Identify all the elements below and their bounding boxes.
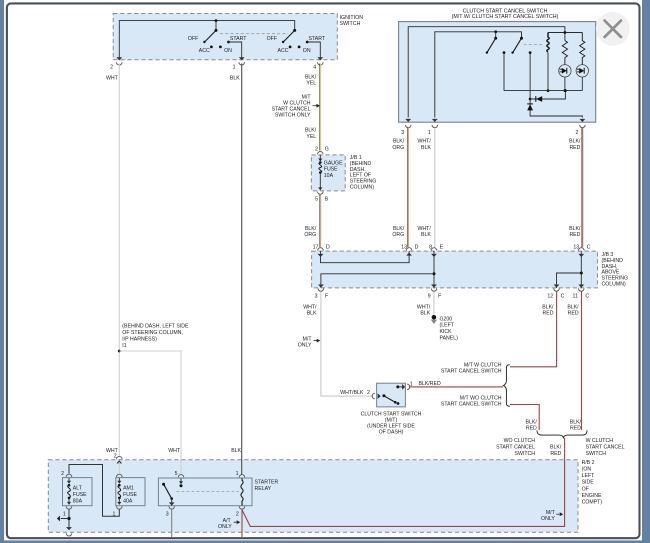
close button <box>596 12 630 46</box>
svg-text:F: F <box>325 294 328 300</box>
svg-text:M/T: M/T <box>546 510 556 516</box>
svg-text:FUSE: FUSE <box>73 492 87 498</box>
svg-text:80A: 80A <box>73 499 83 505</box>
svg-text:START CANCEL SWITCH: START CANCEL SWITCH <box>441 402 502 408</box>
svg-text:SWITCH ONLY: SWITCH ONLY <box>275 113 311 119</box>
diode D2 <box>530 99 582 118</box>
svg-text:RED: RED <box>568 311 579 317</box>
svg-text:WHT/BLK: WHT/BLK <box>340 390 364 396</box>
merged BLK/RED wire down into R/B2 <box>242 438 565 527</box>
terminal 2 of cancel switch <box>580 119 586 122</box>
terminal 3 of cancel switch <box>405 119 411 122</box>
svg-text:2: 2 <box>315 147 318 153</box>
svg-text:LEFT: LEFT <box>582 473 596 479</box>
AM1 fuse box <box>116 478 145 506</box>
svg-text:OFF: OFF <box>267 36 277 42</box>
svg-text:COMPT): COMPT) <box>582 500 603 506</box>
wire BLK/RED cancel sw 2 to J/B3 <box>581 128 583 248</box>
mechanical link dashed line <box>220 33 288 35</box>
gauge fuse 10A <box>319 155 321 161</box>
svg-text:START CANCEL SWITCH: START CANCEL SWITCH <box>441 369 502 375</box>
terminal 8 E of J/B3 <box>431 248 437 251</box>
svg-text:ONLY: ONLY <box>541 516 555 522</box>
svg-text:RED: RED <box>543 311 554 317</box>
svg-text:BLK/: BLK/ <box>393 139 405 145</box>
svg-text:PANEL): PANEL) <box>440 336 459 342</box>
AM1 fuse terminal 2 <box>117 474 123 477</box>
svg-text:1: 1 <box>236 471 239 477</box>
svg-text:40A: 40A <box>123 499 133 505</box>
ground G200 <box>432 315 437 320</box>
svg-text:BLK/: BLK/ <box>569 226 581 232</box>
svg-text:WHT: WHT <box>168 448 181 454</box>
svg-text:BLK: BLK <box>421 232 431 238</box>
wire WHT/BLK cancel sw 1 to J/B3 <box>434 128 436 248</box>
svg-text:WHT: WHT <box>106 76 119 82</box>
svg-text:2: 2 <box>61 471 64 477</box>
svg-text:13: 13 <box>401 245 407 251</box>
J/B 1 box <box>311 155 345 191</box>
relay terminal 5 <box>178 475 184 478</box>
svg-text:2: 2 <box>110 64 113 70</box>
svg-text:WHT: WHT <box>106 448 119 454</box>
mechanical link dashed <box>524 44 545 46</box>
svg-text:C: C <box>561 294 565 300</box>
svg-text:RED: RED <box>569 232 580 238</box>
terminal 12 C of J/B3 <box>554 288 560 291</box>
J/B 3 box <box>312 251 598 288</box>
svg-text:BLK: BLK <box>307 311 317 317</box>
wire from relay 3 down <box>171 509 173 537</box>
wire WHT/BLK from J/B3 3F to clutch start switch <box>321 292 373 397</box>
relay mechanical link <box>177 491 240 493</box>
svg-text:BLK/: BLK/ <box>526 419 538 425</box>
svg-text:ONLY: ONLY <box>218 524 232 530</box>
svg-text:(M/T W/ CLUTCH START CANCEL SW: (M/T W/ CLUTCH START CANCEL SWITCH) <box>452 14 559 20</box>
svg-text:W CLUTCH: W CLUTCH <box>586 438 614 444</box>
relay switch <box>162 483 165 486</box>
wire BLK/ORG from J/B1 to J/B3 <box>319 195 321 248</box>
svg-text:RED: RED <box>550 451 561 457</box>
svg-text:G: G <box>325 147 329 153</box>
svg-text:ACC: ACC <box>278 48 289 54</box>
wire BLK/RED upper branch to J/B3 12 <box>510 292 557 367</box>
svg-text:(BEHIND DASH, LEFT SIDE: (BEHIND DASH, LEFT SIDE <box>122 324 189 330</box>
svg-text:BLK/: BLK/ <box>567 304 579 310</box>
terminal 1 of cancel switch <box>432 119 438 122</box>
wire BLK/YEL from ignition terminal 4 <box>319 63 321 150</box>
svg-text:1: 1 <box>233 64 236 70</box>
wire BLK/RED from relay 2 down <box>241 509 243 537</box>
svg-text:SIDE: SIDE <box>582 480 595 486</box>
svg-text:BLK/: BLK/ <box>569 139 581 145</box>
svg-text:START: START <box>309 36 326 42</box>
svg-text:BLK: BLK <box>420 311 430 317</box>
svg-text:(ON: (ON <box>582 467 592 473</box>
svg-text:3: 3 <box>401 130 404 136</box>
clutch start cancel switch box <box>399 22 596 123</box>
svg-text:11: 11 <box>573 294 578 300</box>
terminal 5 B of J/B 1 <box>318 192 324 195</box>
wire AM1-1 to ALT-2 <box>69 465 119 517</box>
wire from ALT-1 down with branch arrow <box>68 509 70 528</box>
wire WHT branch to starter relay terminal 5 <box>119 351 181 475</box>
wire WHT/BLK from J/B3 9F to ground <box>433 292 435 315</box>
relay terminal 1 <box>239 475 245 478</box>
svg-text:BLK/: BLK/ <box>305 74 317 80</box>
svg-text:BLK: BLK <box>231 448 241 454</box>
svg-text:(LEFT: (LEFT <box>440 323 455 329</box>
terminal 2 G of J/B 1 <box>318 152 324 155</box>
LED U1 <box>559 65 571 77</box>
svg-text:AM1: AM1 <box>123 486 134 492</box>
wire WHT from ignition terminal 2 <box>118 63 120 456</box>
terminal 2 at R/B2 top edge <box>117 456 123 459</box>
AM1 fuse terminal 1 <box>117 506 123 509</box>
split brace <box>503 365 509 407</box>
cancel switch pole 2 <box>520 37 523 40</box>
svg-text:OFF: OFF <box>188 36 198 42</box>
svg-text:START: START <box>230 36 247 42</box>
svg-text:ORG: ORG <box>392 145 404 151</box>
relay coil <box>241 478 243 505</box>
resistor R2 <box>580 33 585 65</box>
wire BLK from ignition terminal 1 <box>241 63 243 474</box>
svg-text:F: F <box>438 294 441 300</box>
svg-text:ORG: ORG <box>392 232 404 238</box>
svg-text:COLUMN): COLUMN) <box>350 185 374 191</box>
svg-text:D: D <box>415 245 419 251</box>
svg-text:WHT/: WHT/ <box>303 304 317 310</box>
svg-text:2: 2 <box>367 390 370 396</box>
svg-text:WHT/: WHT/ <box>417 304 431 310</box>
svg-text:FUSE: FUSE <box>123 492 137 498</box>
node: bus junction <box>215 19 218 22</box>
svg-text:G200: G200 <box>440 316 453 322</box>
svg-text:FUSE: FUSE <box>324 167 338 173</box>
svg-text:ENGINE: ENGINE <box>582 493 602 499</box>
svg-text:BLK/: BLK/ <box>305 128 317 134</box>
svg-text:D: D <box>326 245 330 251</box>
svg-text:RELAY: RELAY <box>255 486 272 492</box>
svg-text:10A: 10A <box>324 173 334 179</box>
terminal 9 F of J/B3 <box>431 288 437 291</box>
svg-text:RED: RED <box>526 426 537 432</box>
terminal 3 F of J/B3 <box>318 288 324 291</box>
svg-text:OF: OF <box>582 486 589 492</box>
svg-text:SWITCH: SWITCH <box>586 451 607 457</box>
svg-text:ON: ON <box>224 48 232 54</box>
wire BLK/RED from clutch start switch <box>409 386 503 388</box>
LED U2 <box>576 65 588 77</box>
svg-text:BLK: BLK <box>230 76 240 82</box>
svg-text:3: 3 <box>315 294 318 300</box>
svg-text:BLK/: BLK/ <box>570 419 582 425</box>
starter relay box <box>158 478 252 506</box>
ALT fuse terminal 2 <box>66 474 72 477</box>
ignition switch box <box>113 14 337 60</box>
AM1 fuse 40A element <box>118 478 120 483</box>
svg-text:12: 12 <box>547 294 553 300</box>
svg-text:RED: RED <box>570 426 581 432</box>
junction on WHT wire <box>118 350 121 353</box>
wire: stub to switch 1 pivot <box>215 21 217 31</box>
svg-text:I/P HARNESS): I/P HARNESS) <box>122 336 157 342</box>
wire: J/B3 internal 8 to 9 and 3 <box>433 251 435 288</box>
wire BLK/ORG cancel sw 3 to J/B3 <box>407 128 409 248</box>
terminal 13 C of J/B3 <box>579 248 585 251</box>
wire: START contact to terminal 1 <box>229 42 242 60</box>
svg-text:WO CLUTCH: WO CLUTCH <box>504 438 536 444</box>
svg-text:YEL: YEL <box>306 81 316 87</box>
svg-text:OF STEERING COLUMN,: OF STEERING COLUMN, <box>122 330 183 336</box>
ALT fuse 80A element <box>68 478 70 483</box>
wire WHT from edge to AM1 fuse <box>118 462 120 474</box>
ALT fuse box <box>63 478 93 506</box>
R/B 2 box <box>48 460 578 532</box>
wire BLK/RED lower branch <box>510 405 539 431</box>
svg-text:RED: RED <box>569 145 580 151</box>
svg-text:BLK/: BLK/ <box>393 226 405 232</box>
svg-text:SWITCH: SWITCH <box>340 21 361 27</box>
svg-text:2: 2 <box>576 130 579 136</box>
svg-text:I1: I1 <box>122 343 126 349</box>
svg-text:1: 1 <box>428 130 431 136</box>
svg-text:ONLY: ONLY <box>298 343 312 349</box>
merge brace <box>537 430 587 437</box>
ignition switch pole 1 <box>215 29 218 32</box>
svg-text:R/B 2: R/B 2 <box>582 460 595 466</box>
relay terminal 2 <box>239 506 245 509</box>
svg-text:ORG: ORG <box>304 232 316 238</box>
svg-text:COLUMN): COLUMN) <box>602 282 626 288</box>
svg-text:3: 3 <box>166 512 169 518</box>
svg-text:2: 2 <box>114 454 117 460</box>
svg-text:9: 9 <box>428 294 431 300</box>
wire: ignition internal bus <box>119 21 294 60</box>
wire: coil-resistor top bus <box>548 32 582 34</box>
ignition switch pole 2 <box>293 29 296 32</box>
ALT fuse terminal 1 <box>66 506 72 509</box>
relay coil (cancel switch) <box>547 33 549 53</box>
svg-text:1: 1 <box>63 511 66 517</box>
svg-text:A/T: A/T <box>223 518 232 524</box>
svg-text:C: C <box>585 294 589 300</box>
terminal 2 of clutch start switch <box>372 393 375 399</box>
terminal 11 C of J/B3 <box>579 288 585 291</box>
svg-text:ON: ON <box>303 48 311 54</box>
svg-text:BLK/RED: BLK/RED <box>419 381 441 387</box>
resistor R1 <box>562 41 567 65</box>
svg-text:BLK/: BLK/ <box>305 226 317 232</box>
wire: J/B3 internal 17 to 13 <box>321 251 410 263</box>
terminal 17 D of J/B3 <box>318 248 324 251</box>
svg-text:GAUGE: GAUGE <box>324 160 343 166</box>
terminal 1 of ignition switch <box>239 57 245 60</box>
svg-text:ACC: ACC <box>199 48 210 54</box>
svg-text:SWITCH: SWITCH <box>515 451 536 457</box>
terminal 2 of ignition switch <box>116 57 122 60</box>
svg-text:BLK: BLK <box>421 145 431 151</box>
svg-text:5: 5 <box>175 471 178 477</box>
terminal 13 D of J/B3 <box>406 248 412 251</box>
svg-text:BLK/: BLK/ <box>542 304 554 310</box>
wire: J/B3 internal 13C to 12 and 11 <box>580 251 582 288</box>
svg-text:4: 4 <box>313 64 316 70</box>
svg-text:2: 2 <box>236 512 239 518</box>
svg-text:KICK: KICK <box>440 329 453 335</box>
cancel switch pole 1 <box>494 37 497 40</box>
relay terminal 3 <box>169 506 175 509</box>
svg-text:E: E <box>440 245 444 251</box>
svg-text:START CANCEL: START CANCEL <box>586 445 625 451</box>
svg-text:WHT/: WHT/ <box>418 139 432 145</box>
svg-text:C: C <box>587 245 591 251</box>
wire: bottom rail <box>504 90 582 92</box>
clutch start switch box <box>377 383 406 407</box>
svg-text:YEL: YEL <box>306 134 316 140</box>
svg-text:M/T: M/T <box>303 336 313 342</box>
diode D1 <box>529 98 532 101</box>
svg-text:ALT: ALT <box>73 486 83 492</box>
svg-text:WHT/: WHT/ <box>418 226 432 232</box>
terminal 4 of ignition switch <box>317 57 323 60</box>
wire: terminal 3 bus <box>408 27 565 118</box>
wire BLK/RED from J/B3 11 down <box>581 292 583 431</box>
svg-text:START CANCEL: START CANCEL <box>496 445 535 451</box>
svg-text:BLK/: BLK/ <box>550 445 562 451</box>
svg-text:OF DASH): OF DASH) <box>379 430 404 436</box>
svg-text:17: 17 <box>313 245 319 251</box>
svg-text:B: B <box>325 196 329 202</box>
node on terminal 1 bus <box>494 30 497 33</box>
svg-text:STARTER: STARTER <box>255 479 279 485</box>
clutch start switch contacts <box>382 394 385 397</box>
wire: START contact to terminal 4 <box>307 42 320 60</box>
wire: terminal 1 bus <box>435 32 522 118</box>
svg-text:8: 8 <box>429 245 432 251</box>
svg-text:5: 5 <box>315 196 318 202</box>
svg-text:13: 13 <box>573 245 579 251</box>
terminal 1 of clutch start switch <box>398 386 404 388</box>
